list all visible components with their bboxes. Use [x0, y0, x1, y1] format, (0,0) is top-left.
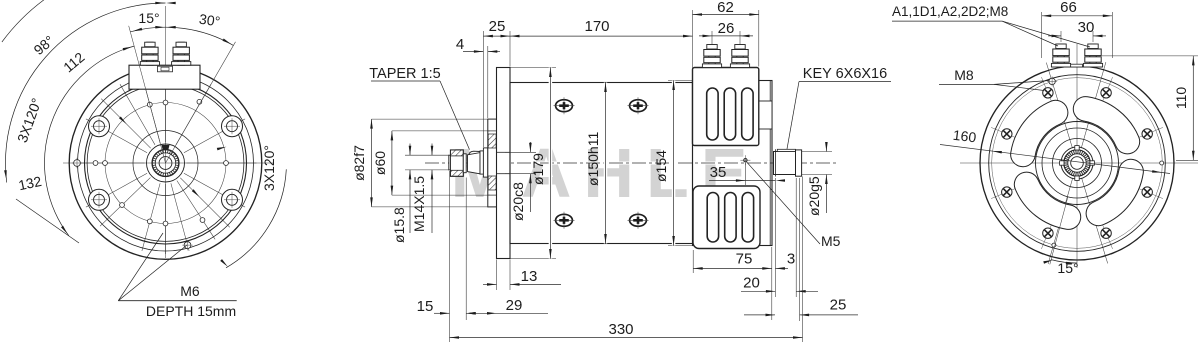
svg-text:A1,1D1,A2,2D2;M8: A1,1D1,A2,2D2;M8 — [892, 4, 1008, 19]
svg-text:13: 13 — [521, 268, 538, 285]
svg-text:20: 20 — [743, 275, 760, 292]
svg-text:25: 25 — [489, 18, 506, 35]
svg-text:ø15.8: ø15.8 — [391, 207, 407, 243]
svg-text:62: 62 — [717, 0, 734, 16]
svg-text:29: 29 — [506, 297, 523, 314]
svg-text:M14X1.5: M14X1.5 — [411, 176, 427, 232]
svg-text:110: 110 — [1173, 87, 1189, 110]
svg-text:M5: M5 — [821, 233, 841, 249]
svg-text:TAPER 1:5: TAPER 1:5 — [369, 66, 440, 82]
svg-text:30°: 30° — [198, 11, 221, 30]
svg-text:ø154: ø154 — [653, 150, 669, 182]
svg-text:26: 26 — [718, 20, 735, 37]
svg-text:75: 75 — [736, 251, 753, 268]
svg-text:DEPTH 15mm: DEPTH 15mm — [146, 303, 236, 319]
svg-text:M8: M8 — [954, 67, 974, 83]
svg-text:3: 3 — [787, 251, 795, 268]
svg-text:160: 160 — [952, 127, 977, 146]
svg-text:15°: 15° — [1057, 260, 1078, 276]
svg-text:ø82f7: ø82f7 — [351, 145, 367, 181]
svg-text:4: 4 — [456, 36, 464, 53]
svg-text:ø179: ø179 — [530, 153, 546, 185]
svg-text:M6: M6 — [180, 283, 200, 299]
svg-text:ø20g5: ø20g5 — [806, 176, 822, 216]
svg-text:15: 15 — [417, 298, 434, 315]
svg-text:25: 25 — [830, 297, 847, 314]
svg-text:66: 66 — [1060, 0, 1077, 16]
svg-text:ø150h11: ø150h11 — [585, 132, 601, 186]
svg-text:30: 30 — [1078, 19, 1095, 36]
svg-text:35: 35 — [710, 164, 727, 181]
svg-text:ø20c8: ø20c8 — [510, 182, 526, 221]
svg-text:KEY 6X6X16: KEY 6X6X16 — [803, 66, 887, 82]
svg-text:ø60: ø60 — [372, 151, 388, 175]
svg-text:330: 330 — [608, 321, 633, 338]
svg-text:170: 170 — [584, 18, 609, 35]
svg-text:15°: 15° — [138, 10, 159, 26]
svg-text:3X120°: 3X120° — [261, 145, 277, 191]
